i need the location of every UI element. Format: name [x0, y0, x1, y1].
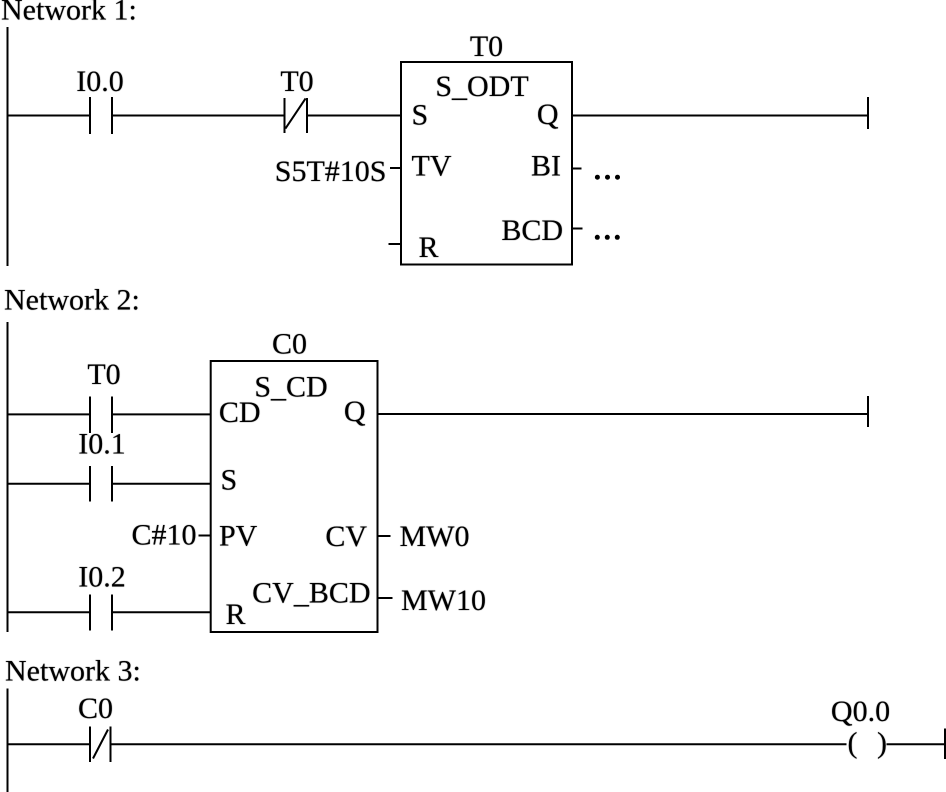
wire Q output network 1: [572, 115, 867, 117]
svg-text:CV: CV: [325, 520, 367, 553]
svg-text:): ): [877, 727, 887, 760]
svg-text:PV: PV: [219, 520, 258, 553]
svg-text:I0.2: I0.2: [78, 561, 126, 594]
svg-text:MW10: MW10: [401, 584, 486, 617]
svg-text:C#10: C#10: [131, 519, 196, 552]
svg-text:T0: T0: [470, 30, 503, 63]
counter box C0 S_CD: [211, 361, 378, 632]
wire rail to contact I0.2: [7, 611, 91, 613]
svg-text:Q0.0: Q0.0: [831, 695, 890, 728]
svg-text:S5T#10S: S5T#10S: [275, 155, 387, 188]
svg-text:T0: T0: [280, 65, 313, 98]
wire rail to contact C0: [7, 743, 91, 745]
BCD output stub: [572, 228, 583, 230]
svg-text:T0: T0: [87, 358, 120, 391]
svg-text:Network 2:: Network 2:: [4, 284, 140, 317]
contact I0.2: [90, 595, 112, 631]
svg-text:TV: TV: [412, 150, 452, 183]
coil Q0.0: [848, 727, 888, 760]
ellipsis BI: [595, 175, 620, 180]
ellipsis BCD: [595, 235, 620, 240]
end tick network 1: [867, 97, 869, 129]
contact I0.0: [90, 97, 112, 134]
svg-text:S: S: [221, 464, 238, 497]
contact I0.1: [90, 466, 112, 502]
left power rail network 1: [7, 27, 9, 266]
end tick network 2: [867, 396, 869, 427]
svg-text:Q: Q: [537, 98, 559, 131]
left power rail network 2: [7, 322, 9, 632]
svg-text:BI: BI: [531, 150, 561, 183]
contact T0 network 2: [90, 397, 112, 434]
timer box T0 S_ODT: [401, 62, 572, 265]
wire rail to contact I0.0: [7, 115, 91, 117]
svg-text:Network 3:: Network 3:: [5, 655, 141, 688]
wire Q output network 2: [378, 413, 868, 415]
svg-text:MW0: MW0: [400, 520, 470, 553]
svg-text:R: R: [419, 231, 439, 264]
wire rail to contact T0: [7, 413, 91, 415]
NC contact T0: [285, 98, 308, 133]
PV input stub: [199, 535, 212, 537]
wire I0.1 to pin S: [112, 483, 211, 485]
CV_BCD output stub: [379, 597, 393, 599]
svg-text:Network 1:: Network 1:: [1, 0, 137, 27]
wire T0 contact to timer box: [307, 115, 401, 117]
svg-text:CV_BCD: CV_BCD: [252, 577, 370, 610]
NC contact C0: [90, 727, 111, 763]
svg-text:S_CD: S_CD: [254, 371, 327, 404]
svg-text:CD: CD: [219, 396, 261, 429]
CV output stub: [379, 535, 391, 537]
wire I0.0 to T0 contact: [112, 115, 285, 117]
svg-text:S_ODT: S_ODT: [435, 70, 528, 103]
wire coil to end: [887, 743, 946, 745]
svg-text:C0: C0: [78, 692, 113, 725]
svg-text:C0: C0: [272, 328, 307, 361]
svg-text:I0.0: I0.0: [76, 65, 124, 98]
svg-text:Q: Q: [344, 395, 366, 428]
BI output stub: [572, 168, 582, 170]
left power rail network 3: [7, 689, 9, 792]
wire T0 to pin CD: [112, 413, 211, 415]
svg-text:BCD: BCD: [501, 214, 563, 247]
svg-text:S: S: [412, 99, 429, 132]
svg-text:(: (: [848, 727, 858, 760]
end tick network 3: [944, 729, 946, 760]
svg-text:R: R: [226, 598, 246, 631]
R input stub: [389, 243, 402, 245]
wire rail to contact I0.1: [7, 483, 91, 485]
wire I0.2 to pin R: [112, 611, 211, 613]
TV input stub: [390, 167, 401, 169]
wire C0 to coil: [111, 743, 847, 745]
svg-text:I0.1: I0.1: [78, 428, 126, 461]
